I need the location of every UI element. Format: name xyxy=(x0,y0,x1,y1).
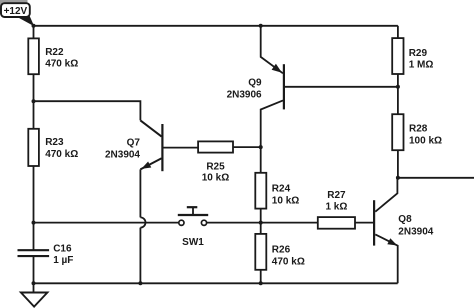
svg-text:R24: R24 xyxy=(272,183,291,194)
svg-text:Q7: Q7 xyxy=(127,138,141,149)
node Q7 emitter bottom junction xyxy=(138,281,142,285)
resistor R26 xyxy=(255,234,305,270)
node B R25 Q9 collector junction xyxy=(259,145,263,149)
svg-text:470 kΩ: 470 kΩ xyxy=(45,59,78,70)
wire Q9 emitter from rail xyxy=(261,26,283,74)
svg-text:R23: R23 xyxy=(45,137,64,148)
node +12V junction xyxy=(32,24,36,28)
wire switch row right to R27 xyxy=(207,222,318,224)
resistor R24 xyxy=(255,173,299,209)
wire R27 to Q8 base xyxy=(355,222,373,224)
wire left rail R23 to C16 xyxy=(33,166,35,250)
wire R28 to node D xyxy=(397,150,399,178)
resistor R25 xyxy=(198,141,233,183)
wire R24 to node C xyxy=(260,209,262,234)
svg-text:10 kΩ: 10 kΩ xyxy=(272,195,299,206)
node Q9 base R29 R28 junction xyxy=(396,85,400,89)
wire left rail R22 to R23 xyxy=(33,26,35,39)
svg-text:+12V: +12V xyxy=(4,6,28,17)
wire top +12V rail xyxy=(34,25,398,27)
svg-text:470 kΩ: 470 kΩ xyxy=(272,256,305,267)
wire bottom rail xyxy=(34,282,398,284)
resistor R28 xyxy=(392,114,442,150)
node A R22 R23 junction xyxy=(32,99,36,103)
resistor R23 xyxy=(28,129,78,166)
transistor Q9 xyxy=(227,64,284,110)
svg-text:10 kΩ: 10 kΩ xyxy=(202,173,229,184)
node C16 bottom junction xyxy=(32,281,36,285)
svg-text:Q8: Q8 xyxy=(398,214,412,225)
wire R29 top xyxy=(397,26,399,38)
wire Q8 emitter to bottom rail xyxy=(375,234,397,283)
node Q9 emitter tap xyxy=(259,24,263,28)
svg-text:C16: C16 xyxy=(53,244,72,255)
wire R26 to bottom rail xyxy=(260,270,262,284)
svg-text:1 kΩ: 1 kΩ xyxy=(325,202,347,213)
resistor R29 xyxy=(392,38,433,74)
switch SW1 xyxy=(178,207,208,248)
wire Q8 collector up xyxy=(375,178,397,212)
power flag +12V xyxy=(0,0,34,26)
resistor R27 xyxy=(318,190,355,229)
node C R24 R26 switch junction xyxy=(259,221,263,225)
wire switch row left xyxy=(34,222,179,224)
resistor R22 xyxy=(28,38,78,74)
wire R29 to R28 xyxy=(397,74,399,114)
transistor Q8 xyxy=(374,200,434,245)
svg-text:100 kΩ: 100 kΩ xyxy=(409,135,442,146)
node R26 bottom junction xyxy=(259,281,263,285)
svg-text:R22: R22 xyxy=(45,47,64,58)
wire R25 to node B xyxy=(233,146,261,148)
svg-text:R27: R27 xyxy=(327,190,346,201)
wire Q9 collector down to R24 xyxy=(261,100,283,172)
capacitor C16 xyxy=(18,244,74,266)
wire output right xyxy=(398,177,474,179)
transistor Q7 xyxy=(105,120,198,171)
svg-text:R25: R25 xyxy=(206,162,225,173)
svg-text:470 kΩ: 470 kΩ xyxy=(45,149,78,160)
svg-text:Q9: Q9 xyxy=(248,77,262,88)
wire Q9 base to R29 R28 node xyxy=(285,86,398,88)
wire hop over switch row xyxy=(140,217,145,227)
svg-text:1 MΩ: 1 MΩ xyxy=(409,60,434,71)
node D output junction xyxy=(396,176,400,180)
wire C16 to ground xyxy=(33,257,35,293)
svg-text:R26: R26 xyxy=(272,244,291,255)
svg-text:R28: R28 xyxy=(409,123,428,134)
ground xyxy=(21,293,48,307)
svg-text:1 µF: 1 µF xyxy=(53,255,73,266)
svg-text:2N3904: 2N3904 xyxy=(105,149,140,160)
svg-text:SW1: SW1 xyxy=(182,237,204,248)
svg-text:2N3906: 2N3906 xyxy=(227,89,262,100)
wire node A to Q7 collector xyxy=(34,101,141,120)
node switch row left junction xyxy=(32,221,36,225)
svg-text:2N3904: 2N3904 xyxy=(398,227,433,238)
svg-text:R29: R29 xyxy=(409,48,428,59)
wire Q7 emitter down xyxy=(139,169,141,217)
